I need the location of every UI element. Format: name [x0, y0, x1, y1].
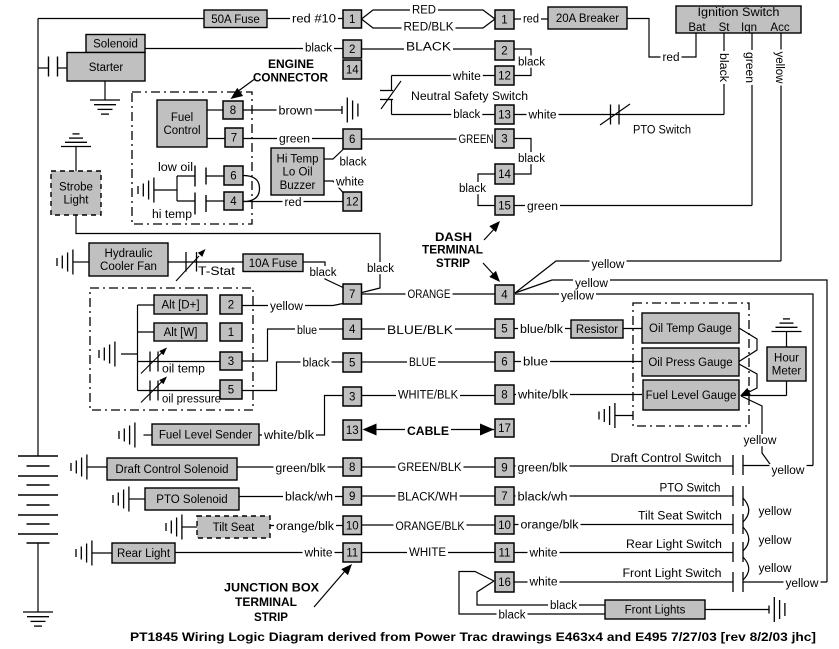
- svg-text:WHITE: WHITE: [409, 547, 446, 559]
- svg-text:9: 9: [349, 491, 355, 503]
- svg-text:4: 4: [349, 324, 356, 336]
- svg-text:oil pressure: oil pressure: [162, 394, 221, 406]
- svg-text:black: black: [367, 263, 394, 275]
- svg-text:Ignition Switch: Ignition Switch: [698, 7, 780, 19]
- svg-text:5: 5: [228, 385, 234, 397]
- svg-text:11: 11: [499, 548, 511, 560]
- svg-text:green: green: [743, 52, 755, 83]
- svg-text:black: black: [459, 183, 486, 195]
- svg-text:yellow: yellow: [786, 578, 820, 590]
- svg-text:CONNECTOR: CONNECTOR: [253, 73, 329, 85]
- svg-text:WHITE/BLK: WHITE/BLK: [398, 390, 458, 402]
- svg-text:hi temp: hi temp: [152, 209, 192, 221]
- svg-text:green: green: [279, 134, 310, 146]
- svg-text:black/wh: black/wh: [285, 492, 333, 504]
- svg-text:Cooler Fan: Cooler Fan: [100, 261, 157, 273]
- svg-text:BLUE/BLK: BLUE/BLK: [387, 325, 453, 337]
- svg-text:black: black: [550, 600, 577, 612]
- svg-text:black: black: [717, 53, 729, 82]
- svg-text:green: green: [527, 201, 558, 213]
- svg-text:ORANGE: ORANGE: [408, 289, 451, 301]
- svg-text:white: white: [452, 71, 481, 83]
- svg-text:Fuel: Fuel: [171, 112, 193, 124]
- svg-text:JUNCTION BOX: JUNCTION BOX: [224, 583, 319, 595]
- svg-text:STRIP: STRIP: [254, 612, 288, 624]
- svg-text:yellow: yellow: [759, 506, 793, 518]
- svg-text:T-Stat: T-Stat: [198, 266, 236, 278]
- svg-text:10: 10: [346, 520, 359, 532]
- svg-text:Starter: Starter: [89, 62, 124, 74]
- svg-text:GREEN: GREEN: [459, 134, 494, 146]
- svg-text:6: 6: [230, 171, 236, 183]
- svg-text:yellow: yellow: [773, 52, 785, 85]
- svg-text:GREEN/BLK: GREEN/BLK: [398, 462, 462, 474]
- svg-text:RED: RED: [412, 5, 436, 17]
- svg-text:TERMINAL: TERMINAL: [235, 597, 297, 609]
- svg-text:Light: Light: [64, 195, 90, 207]
- svg-text:4: 4: [501, 290, 508, 302]
- svg-text:yellow: yellow: [575, 278, 609, 290]
- svg-text:black: black: [310, 267, 337, 279]
- svg-text:Buzzer: Buzzer: [280, 180, 316, 192]
- svg-text:red: red: [523, 14, 539, 26]
- svg-text:green/blk: green/blk: [276, 463, 326, 475]
- svg-text:brown: brown: [279, 106, 313, 118]
- svg-text:white: white: [528, 548, 557, 560]
- svg-text:black: black: [499, 610, 526, 622]
- svg-text:blue/blk: blue/blk: [520, 324, 563, 336]
- svg-text:3: 3: [349, 392, 355, 404]
- svg-text:red: red: [285, 197, 302, 209]
- svg-text:black: black: [303, 358, 330, 370]
- svg-text:1: 1: [501, 15, 507, 27]
- svg-text:BLACK/WH: BLACK/WH: [398, 492, 458, 504]
- svg-text:2: 2: [228, 300, 234, 312]
- svg-text:Oil Press Gauge: Oil Press Gauge: [648, 357, 732, 369]
- svg-text:10: 10: [498, 520, 511, 532]
- svg-text:14: 14: [346, 65, 359, 77]
- svg-text:12: 12: [498, 71, 511, 83]
- svg-text:Acc: Acc: [770, 22, 789, 34]
- svg-text:Tilt Seat Switch: Tilt Seat Switch: [638, 511, 722, 523]
- svg-text:5: 5: [349, 358, 355, 370]
- svg-text:yellow: yellow: [561, 291, 595, 303]
- svg-text:black: black: [518, 57, 545, 69]
- svg-text:Alt [D+]: Alt [D+]: [161, 300, 199, 312]
- svg-text:Fuel Level Sender: Fuel Level Sender: [159, 430, 253, 442]
- svg-text:black: black: [340, 157, 367, 169]
- svg-text:Bat: Bat: [688, 22, 706, 34]
- svg-text:Strobe: Strobe: [59, 182, 93, 194]
- svg-text:13: 13: [346, 425, 359, 437]
- svg-text:DASH: DASH: [435, 232, 472, 244]
- svg-text:2: 2: [349, 44, 355, 56]
- svg-text:Front Light Switch: Front Light Switch: [623, 568, 722, 580]
- svg-text:7: 7: [349, 289, 355, 301]
- svg-text:ORANGE/BLK: ORANGE/BLK: [396, 521, 465, 533]
- svg-text:Control: Control: [163, 125, 200, 137]
- svg-text:Resistor: Resistor: [576, 324, 618, 336]
- svg-text:orange/blk: orange/blk: [276, 521, 334, 533]
- svg-text:17: 17: [498, 423, 511, 435]
- svg-text:6: 6: [349, 134, 355, 146]
- svg-text:Meter: Meter: [772, 366, 802, 378]
- svg-text:50A Fuse: 50A Fuse: [211, 14, 260, 26]
- svg-text:low oil: low oil: [158, 162, 193, 174]
- svg-text:3: 3: [228, 356, 234, 368]
- svg-text:Front Lights: Front Lights: [625, 605, 686, 617]
- svg-text:white: white: [303, 548, 332, 560]
- svg-text:14: 14: [498, 169, 511, 181]
- svg-text:white/blk: white/blk: [517, 390, 568, 402]
- svg-text:Neutral Safety Switch: Neutral Safety Switch: [411, 91, 528, 103]
- svg-text:8: 8: [230, 105, 236, 117]
- svg-text:12: 12: [346, 197, 359, 209]
- svg-text:10A Fuse: 10A Fuse: [249, 258, 298, 270]
- svg-text:yellow: yellow: [759, 563, 793, 575]
- svg-text:yellow: yellow: [270, 301, 304, 313]
- svg-text:yellow: yellow: [772, 465, 806, 477]
- svg-text:yellow: yellow: [592, 259, 626, 271]
- svg-text:PTO Solenoid: PTO Solenoid: [156, 494, 227, 506]
- svg-text:black: black: [518, 153, 545, 165]
- svg-text:7: 7: [501, 491, 507, 503]
- svg-text:2: 2: [501, 46, 507, 58]
- svg-text:15: 15: [498, 201, 511, 213]
- svg-text:yellow: yellow: [744, 435, 778, 447]
- svg-text:Draft Control Solenoid: Draft Control Solenoid: [115, 464, 228, 476]
- svg-text:ENGINE: ENGINE: [268, 59, 314, 71]
- svg-text:BLUE: BLUE: [409, 357, 436, 369]
- svg-text:oil temp: oil temp: [162, 364, 205, 376]
- svg-text:blue: blue: [523, 357, 548, 369]
- svg-text:1: 1: [228, 327, 234, 339]
- svg-text:6: 6: [501, 357, 507, 369]
- svg-text:Rear Light: Rear Light: [117, 548, 171, 560]
- svg-text:Ign: Ign: [741, 22, 757, 34]
- svg-text:black/wh: black/wh: [518, 492, 568, 504]
- svg-text:Oil Temp Gauge: Oil Temp Gauge: [649, 323, 732, 335]
- svg-text:blue: blue: [297, 325, 317, 337]
- svg-text:CABLE: CABLE: [407, 426, 449, 438]
- svg-text:white/blk: white/blk: [263, 430, 314, 442]
- svg-text:Hour: Hour: [774, 353, 799, 365]
- svg-text:3: 3: [501, 134, 507, 146]
- svg-text:20A Breaker: 20A Breaker: [556, 13, 619, 25]
- svg-text:9: 9: [501, 463, 507, 475]
- svg-text:PTO Switch: PTO Switch: [633, 125, 691, 137]
- svg-text:Solenoid: Solenoid: [93, 39, 138, 51]
- svg-text:St: St: [719, 22, 731, 34]
- svg-text:8: 8: [349, 462, 355, 474]
- svg-text:red: red: [663, 52, 680, 64]
- svg-text:1: 1: [349, 14, 355, 26]
- svg-text:black: black: [305, 43, 332, 55]
- svg-text:Draft Control Switch: Draft Control Switch: [611, 453, 722, 465]
- svg-text:Lo Oil: Lo Oil: [282, 167, 312, 179]
- svg-text:Alt [W]: Alt [W]: [164, 327, 198, 339]
- svg-text:5: 5: [501, 324, 507, 336]
- svg-text:white: white: [528, 577, 557, 589]
- svg-text:13: 13: [498, 110, 511, 122]
- svg-text:Hi Temp: Hi Temp: [277, 153, 319, 165]
- svg-text:16: 16: [498, 577, 511, 589]
- svg-text:black: black: [453, 109, 480, 121]
- svg-text:Rear Light Switch: Rear Light Switch: [626, 539, 722, 551]
- svg-text:white: white: [527, 109, 556, 121]
- svg-text:STRIP: STRIP: [436, 258, 470, 270]
- svg-text:TERMINAL: TERMINAL: [422, 245, 483, 257]
- svg-text:11: 11: [346, 548, 358, 560]
- svg-text:7: 7: [231, 133, 237, 145]
- svg-text:8: 8: [501, 390, 507, 402]
- svg-text:red #10: red #10: [292, 14, 336, 26]
- svg-text:white: white: [335, 177, 364, 189]
- svg-text:Hydraulic: Hydraulic: [105, 248, 153, 260]
- svg-text:Fuel Level Gauge: Fuel Level Gauge: [646, 390, 737, 402]
- svg-text:Tilt Seat: Tilt Seat: [213, 522, 256, 534]
- svg-text:PTO Switch: PTO Switch: [660, 483, 721, 495]
- svg-text:PT1845 Wiring Logic Diagram de: PT1845 Wiring Logic Diagram derived from…: [130, 630, 816, 644]
- svg-text:BLACK: BLACK: [406, 42, 451, 54]
- svg-text:4: 4: [230, 196, 237, 208]
- svg-text:RED/BLK: RED/BLK: [404, 22, 454, 34]
- svg-text:yellow: yellow: [759, 535, 793, 547]
- svg-text:orange/blk: orange/blk: [521, 520, 579, 532]
- svg-text:green/blk: green/blk: [518, 463, 568, 475]
